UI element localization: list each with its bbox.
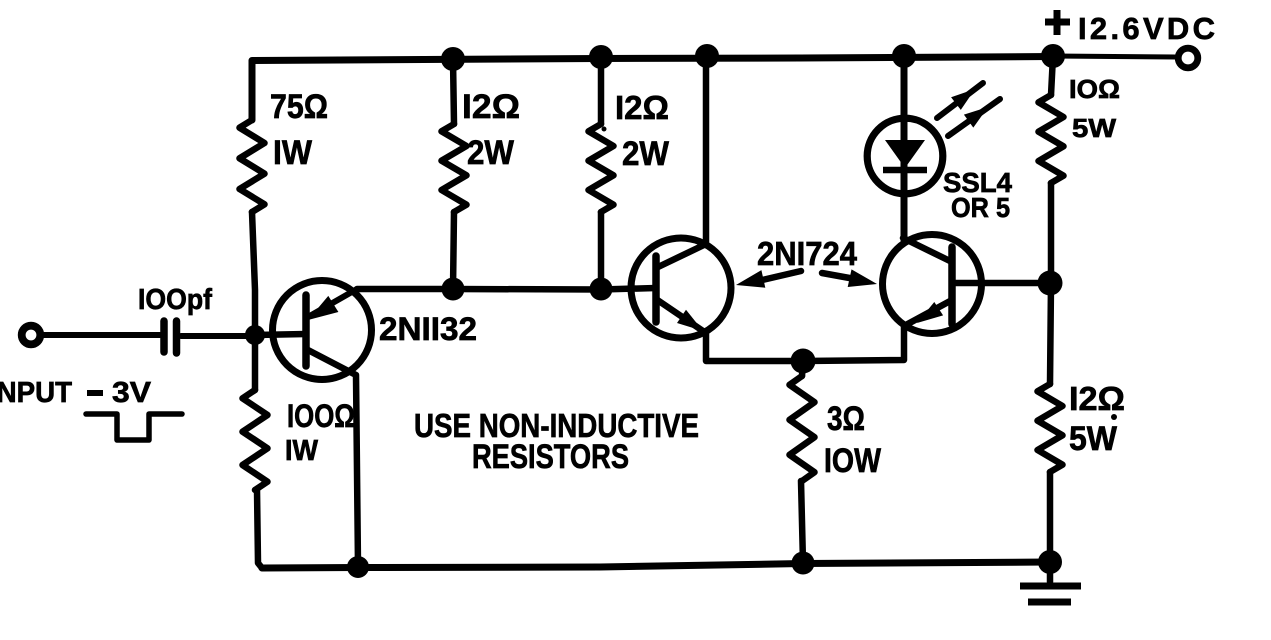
svg-text:2NI724: 2NI724 — [757, 235, 858, 272]
svg-text:IOOΩ: IOOΩ — [287, 398, 355, 434]
svg-text:IW: IW — [273, 134, 313, 172]
svg-text:IOΩ: IOΩ — [1069, 74, 1120, 104]
svg-text:3V: 3V — [112, 377, 152, 409]
svg-text:5W: 5W — [1072, 113, 1117, 143]
svg-text:INPUT: INPUT — [0, 377, 72, 409]
svg-text:75Ω: 75Ω — [270, 88, 328, 126]
svg-text:5W: 5W — [1069, 420, 1118, 458]
svg-text:OR 5: OR 5 — [951, 192, 1010, 223]
svg-text:RESISTORS: RESISTORS — [472, 438, 629, 476]
svg-text:2W: 2W — [622, 135, 670, 173]
svg-text:I2Ω: I2Ω — [1069, 380, 1125, 417]
svg-text:IW: IW — [285, 435, 319, 467]
svg-text:2NII32: 2NII32 — [379, 311, 477, 347]
svg-text:I2.6VDC: I2.6VDC — [1078, 11, 1215, 46]
svg-text:2W: 2W — [467, 134, 515, 172]
svg-text:3Ω: 3Ω — [827, 400, 865, 438]
svg-text:IOW: IOW — [824, 442, 882, 480]
svg-text:I2Ω: I2Ω — [615, 89, 669, 126]
svg-text:IOOpf: IOOpf — [138, 284, 212, 316]
svg-text:I2Ω: I2Ω — [462, 88, 520, 126]
